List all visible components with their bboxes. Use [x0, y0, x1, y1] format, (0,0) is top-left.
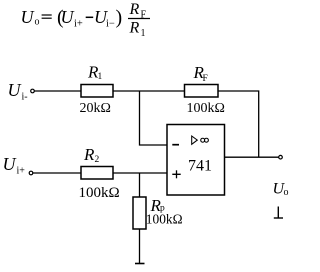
label R2	[83, 145, 100, 165]
gain triangle symbol	[192, 136, 198, 144]
wire op-amp output	[225, 156, 280, 158]
resistor R2	[81, 167, 113, 180]
terminal Ui+	[29, 171, 33, 175]
wire Ui- to R1	[35, 90, 82, 92]
input label Ui-	[8, 80, 28, 103]
svg-text:U: U	[21, 7, 35, 27]
svg-text:o: o	[35, 17, 40, 28]
label RF	[193, 63, 208, 84]
svg-text:100kΩ: 100kΩ	[187, 101, 225, 116]
svg-text:1: 1	[141, 28, 146, 39]
label R1	[87, 63, 103, 83]
wire Ui+ to R2	[33, 172, 81, 174]
svg-text:U: U	[3, 154, 17, 174]
label Rp	[150, 196, 166, 215]
svg-text:100kΩ: 100kΩ	[79, 185, 120, 201]
svg-text:100kΩ: 100kΩ	[146, 212, 183, 227]
svg-text:F: F	[203, 74, 208, 84]
svg-text:R: R	[129, 1, 140, 18]
inverting input pin marker -	[172, 144, 179, 146]
wire RF to output node	[218, 91, 259, 157]
non-inverting input pin marker +	[172, 173, 180, 175]
output label Uo	[273, 181, 289, 199]
formula Uo = (Ui+ - Ui-) RF/R1	[21, 1, 151, 39]
svg-text:20kΩ: 20kΩ	[80, 101, 111, 116]
svg-text:i-: i-	[22, 92, 28, 103]
svg-text:R: R	[83, 145, 95, 164]
input label Ui+	[3, 154, 26, 177]
infinity gain symbol	[201, 138, 205, 142]
resistor R1	[81, 85, 113, 98]
wire Rp to ground	[139, 229, 141, 264]
wire R1 to RF	[113, 90, 185, 92]
svg-text:2: 2	[95, 155, 100, 165]
svg-text:U: U	[8, 80, 22, 100]
resistor Rp	[133, 197, 146, 229]
wire junction down to Rp	[139, 173, 141, 197]
svg-text:i−: i−	[106, 19, 115, 30]
resistor RF	[185, 85, 219, 98]
svg-text:R: R	[129, 20, 140, 37]
svg-text:o: o	[284, 187, 289, 198]
terminal output	[279, 155, 283, 159]
terminal Ui-	[31, 89, 35, 93]
svg-text:i+: i+	[74, 19, 83, 30]
wire junction down to inverting input	[140, 91, 168, 145]
svg-text:741: 741	[188, 158, 212, 175]
ground below Rp	[135, 263, 145, 265]
ground symbol at output	[274, 207, 283, 219]
wire R2 to non-inverting input	[113, 172, 167, 174]
svg-text:i+: i+	[17, 166, 26, 177]
svg-text:1: 1	[98, 72, 103, 82]
op-amp U1 741	[167, 125, 225, 196]
svg-text:U: U	[61, 7, 75, 27]
svg-text:): )	[116, 7, 123, 29]
